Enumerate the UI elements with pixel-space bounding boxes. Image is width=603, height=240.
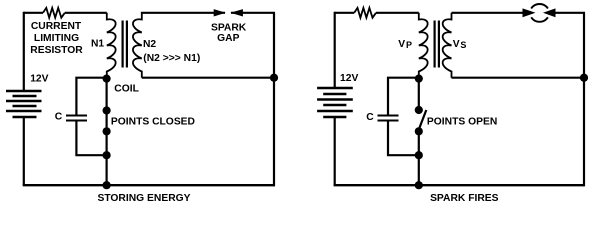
svg-text:12V: 12V [340, 73, 358, 84]
node primary bottom junction [415, 75, 423, 83]
wire secondary bottom to right rail [452, 77, 585, 79]
spark arc upper [531, 4, 548, 8]
svg-text:VS: VS [453, 39, 467, 50]
wire points line lower segment [418, 131, 420, 185]
node bottom rail junction [415, 181, 423, 189]
svg-text:LIMITING: LIMITING [34, 33, 79, 44]
transformer T2 core [435, 21, 439, 68]
wire battery positive lead [334, 12, 336, 88]
wire top-left from battery to resistor [24, 12, 43, 14]
transformer T1 core [123, 21, 127, 68]
svg-text:POINTS OPEN: POINTS OPEN [427, 116, 497, 127]
svg-text:VP: VP [398, 39, 412, 50]
spark arc lower [531, 17, 548, 21]
svg-text:N2: N2 [143, 39, 156, 50]
battery B1 12V [6, 91, 42, 117]
svg-text:RESISTOR: RESISTOR [30, 45, 83, 56]
spark gap electrode left arrow [214, 9, 226, 16]
svg-text:12V: 12V [30, 74, 48, 85]
wire resistor to primary coil [65, 12, 107, 14]
spark gap electrode right arrow [230, 9, 243, 16]
node points lower contact [103, 127, 111, 135]
wire capacitor branch top [76, 78, 106, 115]
node COIL junction [103, 75, 111, 83]
node capacitor return junction [415, 151, 423, 159]
node points upper contact [103, 106, 111, 114]
wire right rail [273, 13, 275, 187]
svg-text:SPARK FIRES: SPARK FIRES [430, 193, 499, 204]
switch open arm (points open slash) [419, 110, 427, 130]
spark plug electrode left arrow [523, 8, 536, 17]
svg-text:(N2 >>> N1): (N2 >>> N1) [143, 53, 200, 64]
wire bottom rail [334, 184, 584, 186]
node points lower contact [415, 127, 423, 135]
wire bottom rail [23, 184, 274, 186]
transformer T1 secondary winding N2 [133, 13, 142, 78]
svg-text:COIL: COIL [114, 83, 139, 94]
wire right rail [583, 13, 585, 187]
node junction secondary/right rail [580, 74, 588, 82]
svg-text:GAP: GAP [217, 33, 239, 44]
wire points line [105, 79, 107, 186]
spark plug electrode right arrow [543, 8, 556, 17]
capacitor C2 plates [378, 116, 399, 121]
node bottom rail junction [103, 181, 111, 189]
transformer T1 primary winding N1 [107, 13, 116, 79]
wire points line upper segment [418, 79, 420, 110]
svg-text:C: C [366, 112, 374, 123]
svg-text:SPARK: SPARK [211, 23, 247, 34]
transformer T2 primary winding VP [419, 13, 428, 79]
wire spark to right rail [554, 12, 585, 14]
wire secondary bottom to right rail [142, 77, 274, 79]
svg-text:C: C [55, 112, 63, 123]
wire capacitor branch bottom [388, 122, 419, 156]
transformer T2 secondary winding VS [443, 13, 452, 78]
svg-text:CURRENT: CURRENT [31, 21, 82, 32]
wire secondary top to spark gap [141, 12, 225, 14]
wire battery negative lead to bottom rail [23, 117, 25, 185]
resistor R1 (current limiting resistor) zigzag [43, 8, 65, 18]
svg-text:POINTS CLOSED: POINTS CLOSED [111, 116, 195, 127]
wire battery positive lead [23, 12, 25, 91]
node points upper contact [415, 106, 423, 114]
wire secondary top to spark [452, 12, 524, 14]
node capacitor return junction [103, 151, 111, 159]
battery B2 12V [317, 88, 353, 117]
node junction secondary/right rail [270, 74, 278, 82]
svg-text:N1: N1 [91, 38, 104, 49]
wire capacitor branch top [388, 78, 419, 115]
wire resistor to primary coil [376, 12, 419, 14]
wire spark gap to right rail [231, 12, 275, 14]
wire top-left from battery to resistor [335, 12, 355, 14]
capacitor C1 plates [66, 116, 87, 121]
wire battery negative lead to bottom rail [334, 117, 336, 185]
wire capacitor branch bottom [76, 122, 106, 156]
svg-text:STORING ENERGY: STORING ENERGY [97, 193, 190, 204]
resistor R2 zigzag [354, 8, 376, 18]
